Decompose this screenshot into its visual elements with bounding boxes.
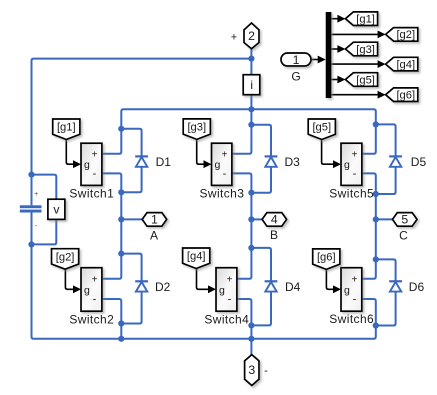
- svg-text:+: +: [227, 274, 233, 285]
- svg-text:1: 1: [151, 212, 158, 226]
- svg-text:Switch2: Switch2: [69, 312, 114, 326]
- svg-text:Switch1: Switch1: [69, 187, 114, 201]
- svg-text:[g5]: [g5]: [312, 122, 331, 134]
- svg-text:g: g: [84, 284, 90, 296]
- svg-text:-: -: [223, 168, 227, 180]
- svg-text:C: C: [399, 229, 408, 243]
- svg-text:D2: D2: [155, 280, 171, 294]
- svg-text:Switch3: Switch3: [199, 187, 244, 201]
- svg-text:-: -: [93, 168, 97, 180]
- svg-text:+: +: [92, 274, 98, 285]
- svg-text:i: i: [250, 78, 253, 92]
- svg-text:[g1]: [g1]: [57, 122, 76, 134]
- svg-text:[g5]: [g5]: [356, 74, 375, 86]
- svg-text:4: 4: [271, 212, 278, 226]
- svg-text:[g3]: [g3]: [187, 122, 206, 134]
- svg-text:A: A: [150, 229, 158, 243]
- svg-text:1: 1: [293, 53, 300, 67]
- svg-text:+: +: [351, 274, 357, 285]
- svg-text:-: -: [228, 294, 232, 306]
- svg-text:g: g: [219, 284, 225, 296]
- svg-text:D3: D3: [285, 155, 301, 169]
- svg-text:+: +: [222, 149, 228, 160]
- svg-text:[g4]: [g4]: [187, 251, 206, 263]
- svg-text:-: -: [353, 168, 357, 180]
- svg-text:+: +: [231, 32, 237, 44]
- svg-text:3: 3: [248, 363, 255, 377]
- svg-text:B: B: [270, 228, 278, 242]
- svg-text:D1: D1: [156, 155, 172, 169]
- svg-text:[g6]: [g6]: [396, 90, 415, 102]
- svg-text:v: v: [53, 202, 60, 216]
- svg-text:+: +: [92, 149, 98, 160]
- svg-text:g: g: [344, 159, 350, 171]
- svg-text:Switch4: Switch4: [204, 312, 249, 326]
- svg-text:D6: D6: [409, 280, 425, 294]
- svg-text:+: +: [352, 149, 358, 160]
- svg-text:[g4]: [g4]: [396, 59, 415, 71]
- svg-text:[g6]: [g6]: [317, 252, 336, 264]
- svg-text:g: g: [84, 159, 90, 171]
- svg-text:D4: D4: [285, 280, 301, 294]
- svg-text:G: G: [291, 70, 300, 84]
- svg-text:g: g: [215, 159, 221, 171]
- svg-text:Switch6: Switch6: [329, 312, 374, 326]
- svg-text:-: -: [264, 365, 268, 377]
- svg-text:[g2]: [g2]: [396, 29, 415, 41]
- svg-text:5: 5: [401, 212, 408, 226]
- svg-text:Switch5: Switch5: [329, 187, 374, 201]
- svg-text:[g1]: [g1]: [356, 14, 375, 26]
- svg-text:[g2]: [g2]: [56, 251, 75, 263]
- svg-text:g: g: [344, 284, 350, 296]
- svg-text:-: -: [93, 294, 97, 306]
- svg-text:2: 2: [248, 29, 255, 43]
- svg-text:-: -: [353, 294, 357, 306]
- svg-text:+: +: [34, 191, 38, 198]
- svg-text:D5: D5: [411, 155, 427, 169]
- svg-text:[g3]: [g3]: [356, 44, 375, 56]
